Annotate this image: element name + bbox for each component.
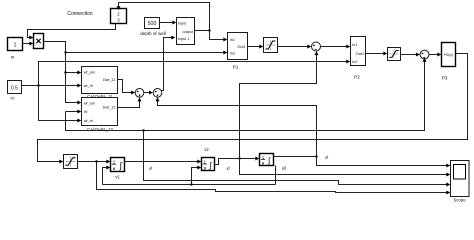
wire sum A1 to P2 In1 <box>321 45 351 49</box>
wire v2 out to a3 in with junction, label xf <box>215 157 260 171</box>
integrator v2 <box>202 147 215 171</box>
svg-text:Out1: Out1 <box>356 51 364 56</box>
subsystem Cal Delta_11 <box>82 67 118 99</box>
wire bottom rail to v1 in2, v2 in2 and scope in3 <box>103 166 276 186</box>
constant 500 depth of well <box>140 18 166 36</box>
svg-text:In2: In2 <box>230 50 235 55</box>
svg-text:Dwt_11: Dwt_11 <box>103 78 116 82</box>
wire sum B1 to sum B2 <box>144 91 153 95</box>
subsystem Cal Delta_12 <box>82 98 118 133</box>
constant ro=0.5 <box>8 81 22 101</box>
wire vf branch down to scope in2 <box>240 159 451 177</box>
wire product out to P1 In2 and Cal wf_am inputs <box>44 42 228 105</box>
wire sum A2 to P3 <box>429 53 441 57</box>
svg-text:P3: P3 <box>442 76 448 82</box>
svg-text:1: 1 <box>113 159 116 164</box>
wire 0.5 to wf_rh inputs and P2 In2 <box>22 60 351 123</box>
svg-text:a3: a3 <box>282 166 287 171</box>
wire P1 out to saturation S1 <box>248 45 264 49</box>
svg-text:In2: In2 <box>352 59 357 64</box>
subsystem P1 <box>228 33 248 71</box>
svg-text:wf_rh: wf_rh <box>84 119 93 123</box>
svg-text:wf_rh: wf_rh <box>84 84 93 88</box>
svg-text:depth of well: depth of well <box>140 31 166 36</box>
subsystem P2 <box>351 37 366 81</box>
saturation S3 <box>64 155 78 169</box>
svg-text:PID(s): PID(s) <box>444 53 453 57</box>
svg-text:ro: ro <box>11 95 15 100</box>
svg-text:Cal Delta_12: Cal Delta_12 <box>87 127 114 132</box>
svg-text:1: 1 <box>14 42 17 48</box>
svg-text:P2: P2 <box>354 75 360 81</box>
constant w=1 <box>8 38 23 60</box>
svg-text:wf_am: wf_am <box>84 101 95 105</box>
svg-text:W: W <box>84 110 88 114</box>
svg-text:input: input <box>178 21 187 26</box>
svg-text:input 1: input 1 <box>178 36 190 41</box>
sum junction A1 <box>312 42 321 51</box>
svg-text:Scope: Scope <box>453 198 466 203</box>
wire a3 out to scope in1, branch to sum B2 bottom <box>156 97 451 167</box>
wire Dwt_11 to sum B1 <box>118 80 136 95</box>
sum junction B2 <box>153 89 162 98</box>
svg-text:Out1: Out1 <box>237 44 245 49</box>
well subsystem input/output <box>177 18 195 45</box>
wire P2 out to saturation S2 <box>366 52 388 56</box>
svg-text:0.5: 0.5 <box>11 85 18 91</box>
saturation S2 <box>388 48 401 61</box>
svg-text:Connection: Connection <box>67 11 93 17</box>
wire output to Connection top feedback and P1 In1 <box>117 3 228 42</box>
svg-text:500: 500 <box>148 21 157 27</box>
wire S3 to integrator v1 with branch to scope in4 <box>78 160 451 195</box>
svg-text:In1: In1 <box>230 37 235 42</box>
integrator a3 <box>260 154 287 171</box>
wire W net: Cal2 W input and sum A2 bottom <box>66 58 427 132</box>
wire Dwt_12 to sum B1 bottom <box>118 97 142 107</box>
saturation S1 <box>264 38 278 53</box>
wire sum B2 top to input 1 <box>161 36 175 91</box>
wire S2 to sum A2 <box>401 53 420 57</box>
wire w to product in2 <box>23 42 34 46</box>
wire v1 out to v2 in1, label vf <box>125 160 202 171</box>
wire branch from W net down to bottom rail <box>144 131 451 187</box>
wire 500 to input <box>160 21 177 25</box>
svg-text:Dwt_12: Dwt_12 <box>103 106 116 110</box>
wire Connection out to product in1 <box>28 24 116 40</box>
svg-text:In1: In1 <box>352 42 357 47</box>
wire stub below a3 <box>275 166 277 185</box>
svg-text:wf_am: wf_am <box>84 70 95 74</box>
sum junction B1 <box>135 89 144 98</box>
svg-text:P1: P1 <box>233 65 239 71</box>
sum junction A2 <box>420 50 429 59</box>
Connection block <box>67 9 126 24</box>
svg-text:v2: v2 <box>204 147 209 152</box>
scope <box>451 161 470 203</box>
integrator v1 <box>111 158 125 180</box>
wire vf feedback up to sum A1 bottom <box>240 51 319 158</box>
controller P3 <box>442 43 456 82</box>
svg-text:output: output <box>182 29 194 34</box>
wire P3 out feedback down-left to saturation S3 <box>38 54 468 164</box>
svg-text:v1: v1 <box>115 175 120 180</box>
wire S1 to sum A1 <box>278 45 312 49</box>
svg-text:s: s <box>113 166 116 171</box>
product M <box>34 34 44 49</box>
